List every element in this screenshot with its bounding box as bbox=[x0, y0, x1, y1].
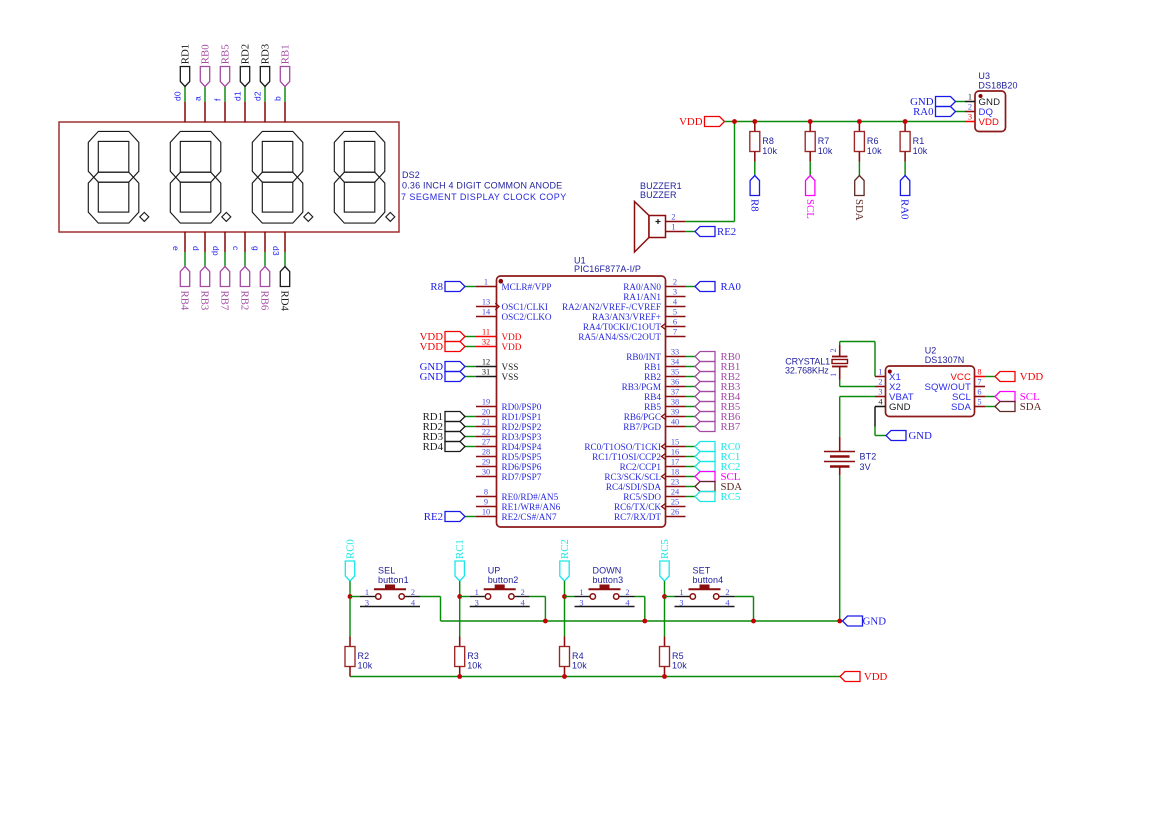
wire to U1 left RD2 bbox=[465, 426, 476, 428]
wire RA0 bbox=[904, 162, 906, 176]
flag SCL bbox=[806, 176, 815, 196]
U1 pin 28 RD5/PSP5 bbox=[476, 456, 497, 458]
svg-text:27: 27 bbox=[482, 438, 490, 447]
wire VBAT bbox=[840, 396, 875, 398]
flag RC1 (button col) bbox=[455, 561, 464, 581]
U1 pin 34 RB1 bbox=[666, 366, 686, 368]
wire to U1 left GND bbox=[465, 366, 476, 368]
wire e bottom bbox=[184, 252, 186, 267]
svg-text:RA0: RA0 bbox=[721, 281, 741, 293]
op U3 DS18B20 body bbox=[975, 91, 1006, 132]
button pin 1 bbox=[675, 596, 690, 598]
svg-text:RC3/SCK/SCL: RC3/SCK/SCL bbox=[604, 472, 661, 482]
svg-text:8: 8 bbox=[484, 488, 488, 497]
display digit 3 bbox=[252, 131, 312, 223]
svg-text:RB7/PGD: RB7/PGD bbox=[623, 422, 661, 432]
U1 pin1 dot bbox=[499, 279, 504, 284]
svg-text:15: 15 bbox=[671, 438, 679, 447]
wire to U1 left RD3 bbox=[465, 436, 476, 438]
button pin 1 bbox=[575, 596, 590, 598]
svg-text:10: 10 bbox=[482, 508, 490, 517]
buzzer BUZZER1 bbox=[635, 202, 650, 253]
resistor R1 bbox=[904, 122, 906, 132]
wire to U1 left VDD bbox=[465, 336, 476, 338]
resistor R3 bbox=[459, 637, 461, 647]
svg-text:SCL: SCL bbox=[804, 199, 816, 219]
U1 pin 40 RB7/PGD bbox=[666, 426, 686, 428]
flag VDD bbox=[445, 342, 465, 352]
svg-text:R2: R2 bbox=[358, 651, 370, 661]
wire battery to GND row bbox=[839, 475, 841, 621]
wire to U1 right RB6 bbox=[686, 416, 696, 418]
wire col RC2 bbox=[564, 581, 566, 637]
U2 pin 8 VCC bbox=[975, 376, 986, 378]
svg-text:RC0: RC0 bbox=[344, 539, 356, 559]
button pin 1 bbox=[470, 596, 485, 598]
svg-text:RD3/PSP3: RD3/PSP3 bbox=[502, 432, 542, 442]
svg-text:RB7: RB7 bbox=[219, 291, 231, 311]
flag RD4 bbox=[280, 267, 289, 287]
wire button2 in bbox=[460, 596, 470, 598]
flag RE2 bbox=[445, 512, 465, 522]
svg-text:RD3: RD3 bbox=[259, 44, 271, 64]
buzzer pin 1 bbox=[666, 231, 686, 233]
flag RB1 bbox=[280, 67, 289, 87]
svg-text:RA0: RA0 bbox=[899, 199, 911, 219]
display bottom pin RB3/d bbox=[204, 232, 206, 253]
svg-text:36: 36 bbox=[671, 378, 679, 387]
flag GND bbox=[445, 372, 465, 382]
U2 pin 3 VBAT bbox=[875, 396, 886, 398]
svg-text:10k: 10k bbox=[867, 146, 882, 156]
svg-text:10k: 10k bbox=[572, 661, 587, 671]
U3 pin 2 DQ bbox=[965, 111, 975, 113]
U1 pin 29 RD6/PSP6 bbox=[476, 466, 497, 468]
display top pin RB0/a bbox=[204, 102, 206, 123]
svg-text:3: 3 bbox=[679, 598, 683, 607]
flag GND (U2) bbox=[886, 431, 906, 441]
wire crystal1 to X2 bbox=[839, 380, 841, 387]
flag RA0 (U3) bbox=[936, 107, 956, 117]
svg-text:VDD: VDD bbox=[420, 341, 444, 353]
junction button3/GND row bbox=[642, 619, 647, 624]
flag RC1 bbox=[695, 452, 715, 462]
svg-text:17: 17 bbox=[671, 458, 679, 467]
svg-text:37: 37 bbox=[671, 388, 679, 397]
svg-text:8: 8 bbox=[977, 368, 981, 377]
button pins 3-4 bbox=[360, 606, 420, 608]
U3 pin 3 VDD bbox=[965, 121, 975, 123]
svg-text:e: e bbox=[171, 246, 181, 251]
junction battery/GND row bbox=[837, 619, 842, 624]
flag RB6 bbox=[260, 267, 269, 287]
junction VDD/buzzer bbox=[732, 119, 737, 124]
U3 pin1 dot bbox=[979, 94, 983, 98]
svg-text:VDD: VDD bbox=[502, 332, 522, 342]
display bottom pin RD4/d3 bbox=[284, 232, 286, 253]
wire b top bbox=[284, 87, 286, 103]
flag RD3 bbox=[445, 432, 465, 442]
svg-text:RC5: RC5 bbox=[659, 539, 671, 559]
U2 pin 6 SCL bbox=[975, 396, 986, 398]
display top pin RB5/f bbox=[224, 102, 226, 123]
svg-text:button3: button3 bbox=[593, 575, 624, 585]
button pins 3-4 bbox=[470, 606, 530, 608]
svg-text:1: 1 bbox=[679, 588, 683, 597]
flag SDA bbox=[855, 176, 864, 196]
svg-text:31: 31 bbox=[482, 368, 490, 377]
svg-text:VSS: VSS bbox=[502, 362, 519, 372]
display DS2 body bbox=[59, 122, 399, 232]
button pins 3-4 bbox=[675, 606, 735, 608]
svg-text:1: 1 bbox=[579, 588, 583, 597]
svg-text:RB1: RB1 bbox=[644, 362, 661, 372]
svg-text:R6: R6 bbox=[867, 136, 879, 146]
svg-text:1: 1 bbox=[968, 93, 972, 102]
display digit 2 bbox=[170, 131, 231, 223]
svg-text:SEL: SEL bbox=[378, 565, 395, 575]
wire col RC5 bbox=[664, 581, 666, 637]
svg-text:RD7/PSP7: RD7/PSP7 bbox=[502, 472, 542, 482]
svg-text:VDD: VDD bbox=[979, 117, 1000, 128]
U1 pin 6 RA4/T0CKI/C1OUT bbox=[666, 326, 686, 328]
wire to U1 right RB2 bbox=[686, 376, 696, 378]
svg-text:33: 33 bbox=[671, 348, 679, 357]
U1 pin 15 RC0/T1OSO/T1CKI bbox=[666, 446, 686, 448]
svg-text:SDA: SDA bbox=[853, 199, 865, 221]
svg-text:RB0: RB0 bbox=[199, 44, 211, 64]
display top pin RD1/d0 bbox=[184, 102, 186, 123]
svg-text:R8: R8 bbox=[430, 281, 443, 293]
svg-text:RC1/T1OSI/CCP2: RC1/T1OSI/CCP2 bbox=[592, 452, 661, 462]
svg-text:GND: GND bbox=[889, 402, 911, 413]
crystal pin 2 bbox=[839, 345, 841, 357]
flag RD3 bbox=[260, 67, 269, 87]
junction R3/VDD row bbox=[457, 674, 462, 679]
wire to U1 right RB7 bbox=[686, 426, 696, 428]
svg-text:25: 25 bbox=[671, 498, 679, 507]
svg-text:b: b bbox=[273, 96, 283, 101]
svg-text:U2: U2 bbox=[925, 346, 937, 356]
svg-text:1: 1 bbox=[878, 368, 882, 377]
svg-text:DS2: DS2 bbox=[402, 170, 420, 180]
svg-text:DS18B20: DS18B20 bbox=[978, 80, 1017, 90]
svg-text:RB1: RB1 bbox=[279, 44, 291, 64]
flag RD2 bbox=[240, 67, 249, 87]
svg-text:RA2/AN2/VREF-/CVREF: RA2/AN2/VREF-/CVREF bbox=[562, 302, 661, 312]
crystal CRYSTAL1 bbox=[832, 356, 848, 358]
display top pin RD3/d2 bbox=[264, 102, 266, 123]
svg-text:RB2: RB2 bbox=[644, 372, 661, 382]
svg-text:22: 22 bbox=[482, 428, 490, 437]
svg-text:VDD: VDD bbox=[864, 671, 888, 683]
svg-text:VDD: VDD bbox=[502, 342, 522, 352]
junction R8 bbox=[752, 119, 757, 124]
wire SCL bbox=[809, 162, 811, 176]
U1 pin 25 RC6/TX/CK bbox=[666, 506, 686, 508]
svg-text:PIC16F877A-I/P: PIC16F877A-I/P bbox=[574, 264, 641, 274]
svg-text:RB5: RB5 bbox=[219, 44, 231, 64]
svg-text:c: c bbox=[231, 246, 241, 251]
button pins 3-4 bbox=[575, 606, 635, 608]
wire button4 in bbox=[665, 596, 675, 598]
svg-text:GND: GND bbox=[420, 371, 444, 383]
resistor R2 bbox=[349, 637, 351, 647]
svg-text:2: 2 bbox=[411, 588, 415, 597]
wire VDD rail bbox=[725, 121, 966, 123]
svg-text:2: 2 bbox=[968, 103, 972, 112]
resistor R4 bbox=[564, 637, 566, 647]
U1 pin 4 RA2/AN2/VREF-/CVREF bbox=[666, 306, 686, 308]
wire SDA (U2) bbox=[985, 406, 995, 408]
svg-text:32.768KHz: 32.768KHz bbox=[785, 366, 829, 376]
wire a top bbox=[204, 87, 206, 103]
svg-text:d0: d0 bbox=[173, 91, 183, 101]
svg-text:RA4/T0CKI/C1OUT: RA4/T0CKI/C1OUT bbox=[583, 322, 661, 332]
wire col RC1 bbox=[459, 581, 461, 637]
resistor R6 bbox=[858, 122, 860, 132]
svg-text:1: 1 bbox=[829, 373, 838, 377]
junction button4/GND row bbox=[751, 619, 756, 624]
flag RB2 bbox=[240, 267, 249, 287]
svg-text:5: 5 bbox=[977, 398, 981, 407]
svg-text:OSC1/CLKI: OSC1/CLKI bbox=[502, 302, 548, 312]
U2 pin 7 SQW/OUT bbox=[975, 386, 986, 388]
flag GND (U3) bbox=[936, 97, 956, 107]
svg-text:BUZZER: BUZZER bbox=[640, 190, 677, 200]
U1 pin 8 RE0/RD#/AN5 bbox=[476, 496, 497, 498]
flag VDD bbox=[445, 332, 465, 342]
junction R7 bbox=[808, 119, 813, 124]
flag RC2 bbox=[695, 462, 715, 472]
svg-text:RA1/AN1: RA1/AN1 bbox=[623, 292, 661, 302]
wire d2 top bbox=[264, 87, 266, 103]
flag RB3 bbox=[695, 382, 715, 392]
wire to U1 right RC5 bbox=[686, 496, 696, 498]
U1 pin 19 RD0/PSP0 bbox=[476, 406, 497, 408]
flag VDD (U2) bbox=[995, 372, 1015, 382]
svg-text:OSC2/CLKO: OSC2/CLKO bbox=[502, 312, 552, 322]
svg-text:7: 7 bbox=[673, 328, 677, 337]
U2 pin 2 X2 bbox=[875, 386, 886, 388]
U1 pin 39 RB6/PGC bbox=[666, 416, 686, 418]
svg-text:38: 38 bbox=[671, 398, 679, 407]
svg-text:RA0: RA0 bbox=[913, 106, 933, 118]
flag RB1 bbox=[695, 362, 715, 372]
display top pin RD2/d1 bbox=[244, 102, 246, 123]
flag RD4 bbox=[445, 442, 465, 452]
flag RB2 bbox=[695, 372, 715, 382]
svg-text:d1: d1 bbox=[233, 91, 243, 101]
svg-text:24: 24 bbox=[671, 488, 680, 497]
svg-text:RB2: RB2 bbox=[239, 291, 251, 311]
svg-text:2: 2 bbox=[625, 588, 629, 597]
U2 pin 1 X1 bbox=[875, 376, 886, 378]
U1 pin 13 OSC1/CLKI bbox=[476, 306, 497, 308]
display top pin RB1/b bbox=[284, 102, 286, 123]
flag RB4 bbox=[695, 392, 715, 402]
flag RB7 bbox=[220, 267, 229, 287]
flag RD1 bbox=[180, 67, 189, 87]
svg-text:13: 13 bbox=[482, 298, 490, 307]
wire to U1 right RB1 bbox=[686, 366, 696, 368]
svg-text:RD1/PSP1: RD1/PSP1 bbox=[502, 412, 542, 422]
svg-text:RB0/INT: RB0/INT bbox=[626, 352, 661, 362]
wire to U1 left RD4 bbox=[465, 446, 476, 448]
svg-text:3: 3 bbox=[673, 288, 677, 297]
wire to U1 right RC0 bbox=[686, 446, 696, 448]
svg-text:RB5: RB5 bbox=[644, 402, 661, 412]
flag RA0 bbox=[900, 176, 909, 196]
wire d bottom bbox=[204, 252, 206, 267]
svg-text:RB3: RB3 bbox=[199, 291, 211, 311]
flag GND bbox=[445, 362, 465, 372]
flag SCL bbox=[695, 472, 715, 482]
svg-text:RA3/AN3/VREF+: RA3/AN3/VREF+ bbox=[592, 312, 661, 322]
display digit 1 bbox=[88, 131, 149, 223]
junction RC1/button bbox=[457, 594, 462, 599]
U1 pin 27 RD4/PSP4 bbox=[476, 446, 497, 448]
wire d0 top bbox=[184, 87, 186, 103]
svg-text:g: g bbox=[251, 246, 261, 251]
svg-text:10k: 10k bbox=[762, 146, 777, 156]
svg-text:3: 3 bbox=[968, 113, 972, 122]
svg-text:RB6/PGC: RB6/PGC bbox=[624, 412, 661, 422]
wire to U1 left RE2 bbox=[465, 516, 476, 518]
wire button3 out to GND row bbox=[635, 596, 645, 598]
svg-text:RC6/TX/CK: RC6/TX/CK bbox=[614, 502, 661, 512]
svg-text:RC7/RX/DT: RC7/RX/DT bbox=[614, 512, 661, 522]
svg-text:RA5/AN4/SS/C2OUT: RA5/AN4/SS/C2OUT bbox=[578, 332, 661, 342]
U1 pin 11 VDD bbox=[476, 336, 497, 338]
junction R4/VDD row bbox=[562, 674, 567, 679]
flag RC0 (button col) bbox=[345, 561, 354, 581]
flag R8 bbox=[445, 282, 465, 292]
U1 pin 21 RD2/PSP2 bbox=[476, 426, 497, 428]
svg-text:21: 21 bbox=[482, 418, 490, 427]
svg-text:SDA: SDA bbox=[951, 402, 972, 413]
wire to U1 right SDA bbox=[686, 486, 696, 488]
svg-text:RD6/PSP6: RD6/PSP6 bbox=[502, 462, 542, 472]
U1 pin 26 RC7/RX/DT bbox=[666, 516, 686, 518]
flag RB0 bbox=[695, 352, 715, 362]
svg-text:d: d bbox=[191, 246, 201, 251]
flag RD2 bbox=[445, 422, 465, 432]
U1 pin 23 RC4/SDI/SDA bbox=[666, 486, 686, 488]
wire to U1 left VDD bbox=[465, 346, 476, 348]
flag RC5 bbox=[695, 492, 715, 502]
svg-text:R7: R7 bbox=[818, 136, 830, 146]
flag GND (row) bbox=[843, 616, 863, 626]
svg-text:3: 3 bbox=[475, 598, 479, 607]
flag RC0 bbox=[695, 442, 715, 452]
U2 pin 5 SDA bbox=[975, 406, 986, 408]
flag RB4 bbox=[180, 267, 189, 287]
svg-text:7: 7 bbox=[977, 378, 981, 387]
svg-text:dp: dp bbox=[211, 246, 221, 256]
crystal pin 1 bbox=[839, 367, 841, 380]
svg-text:BT2: BT2 bbox=[860, 452, 877, 462]
svg-text:R1: R1 bbox=[913, 136, 925, 146]
U1 pin 20 RD1/PSP1 bbox=[476, 416, 497, 418]
svg-text:RC5: RC5 bbox=[721, 491, 741, 503]
wire to U1 right SCL bbox=[686, 476, 696, 478]
wire col RC0 bbox=[349, 581, 351, 637]
wire to U1 right RB0 bbox=[686, 356, 696, 358]
svg-text:RC2/CCP1: RC2/CCP1 bbox=[620, 462, 662, 472]
U1 pin 24 RC5/SDO bbox=[666, 496, 686, 498]
U1 pin 2 RA0/AN0 bbox=[666, 286, 686, 288]
svg-text:5: 5 bbox=[673, 308, 677, 317]
wire to U1 right RB3 bbox=[686, 386, 696, 388]
junction R1 bbox=[903, 119, 908, 124]
svg-text:R8: R8 bbox=[748, 199, 760, 212]
flag RB5 bbox=[695, 402, 715, 412]
svg-text:20: 20 bbox=[482, 408, 490, 417]
flag RB6 bbox=[695, 412, 715, 422]
svg-text:RD4: RD4 bbox=[279, 291, 291, 312]
wire to U1 right RB4 bbox=[686, 396, 696, 398]
button pin 2 bbox=[405, 596, 420, 598]
junction R5/VDD row bbox=[662, 674, 667, 679]
wire VDD (U2 VCC) bbox=[985, 376, 995, 378]
wire d1 top bbox=[244, 87, 246, 103]
U3 pin 1 GND bbox=[965, 101, 975, 103]
flag RB3 bbox=[200, 267, 209, 287]
wire g bottom bbox=[264, 252, 266, 267]
svg-text:7 SEGMENT DISPLAY CLOCK COPY: 7 SEGMENT DISPLAY CLOCK COPY bbox=[401, 192, 567, 202]
svg-text:RE2/CS#/AN7: RE2/CS#/AN7 bbox=[502, 512, 558, 522]
wire to U1 right RC2 bbox=[686, 466, 696, 468]
svg-text:RE1/WR#/AN6: RE1/WR#/AN6 bbox=[502, 502, 561, 512]
buzzer pin 2 bbox=[666, 221, 686, 223]
svg-text:MCLR#/VPP: MCLR#/VPP bbox=[502, 282, 552, 292]
flag RE2 (buzzer) bbox=[695, 227, 715, 237]
wire R8 bbox=[754, 162, 756, 176]
svg-text:RA0/AN0: RA0/AN0 bbox=[623, 282, 661, 292]
wire c bottom bbox=[244, 252, 246, 267]
svg-text:35: 35 bbox=[671, 368, 679, 377]
wire U2 GND pin4 bbox=[874, 407, 876, 427]
svg-text:GND: GND bbox=[863, 616, 887, 628]
svg-text:RB4: RB4 bbox=[644, 392, 661, 402]
svg-text:10k: 10k bbox=[913, 146, 928, 156]
wire to U1 right RB5 bbox=[686, 406, 696, 408]
flag VDD rail bbox=[705, 117, 725, 127]
flag RB0 bbox=[200, 67, 209, 87]
button pin 2 bbox=[720, 596, 735, 598]
svg-text:2: 2 bbox=[725, 588, 729, 597]
svg-text:39: 39 bbox=[671, 408, 679, 417]
wire SCL (U2) bbox=[985, 396, 995, 398]
U1 pin 31 VSS bbox=[476, 376, 497, 378]
svg-text:10k: 10k bbox=[818, 146, 833, 156]
svg-text:RD1: RD1 bbox=[179, 44, 191, 64]
svg-text:1: 1 bbox=[365, 588, 369, 597]
flag RA0 bbox=[695, 282, 715, 292]
svg-text:10k: 10k bbox=[672, 661, 687, 671]
U1 pin 32 VDD bbox=[476, 346, 497, 348]
display bottom pin RB4/e bbox=[184, 232, 186, 253]
battery BT2 bbox=[839, 437, 841, 452]
svg-text:button4: button4 bbox=[693, 575, 724, 585]
svg-text:a: a bbox=[193, 96, 203, 101]
svg-text:RD5/PSP5: RD5/PSP5 bbox=[502, 452, 542, 462]
svg-text:29: 29 bbox=[482, 458, 490, 467]
svg-text:R3: R3 bbox=[467, 651, 479, 661]
resistor R7 bbox=[809, 122, 811, 132]
svg-text:2: 2 bbox=[521, 588, 525, 597]
